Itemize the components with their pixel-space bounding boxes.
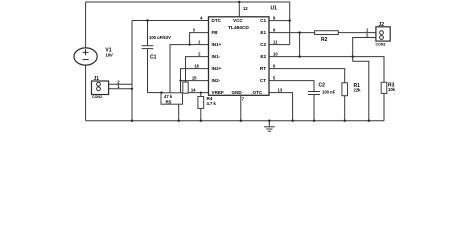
svg-text:OTC: OTC xyxy=(253,90,263,95)
svg-text:IN2-: IN2- xyxy=(212,78,221,83)
svg-text:IN1+: IN1+ xyxy=(212,42,222,47)
svg-text:E1: E1 xyxy=(260,30,266,35)
svg-text:13: 13 xyxy=(278,87,283,92)
svg-text:J2: J2 xyxy=(379,22,385,28)
svg-text:C1: C1 xyxy=(150,55,157,61)
svg-text:16V: 16V xyxy=(105,52,113,57)
svg-text:10k: 10k xyxy=(388,87,396,92)
svg-text:CT: CT xyxy=(260,78,266,83)
svg-text:E2: E2 xyxy=(260,54,266,59)
svg-text:100 nF: 100 nF xyxy=(322,90,336,95)
svg-text:IN1-: IN1- xyxy=(212,54,221,59)
svg-text:CON2: CON2 xyxy=(92,95,102,99)
svg-text:J1: J1 xyxy=(94,76,100,82)
svg-text:DTC: DTC xyxy=(212,18,222,23)
svg-text:15: 15 xyxy=(192,75,197,80)
svg-text:RT: RT xyxy=(260,66,266,71)
svg-text:GND: GND xyxy=(232,90,243,95)
svg-text:16: 16 xyxy=(194,63,199,68)
svg-text:100 uF/63V: 100 uF/63V xyxy=(149,35,171,40)
svg-text:C1: C1 xyxy=(260,18,266,23)
svg-text:10: 10 xyxy=(273,51,278,56)
svg-text:11: 11 xyxy=(273,39,278,44)
svg-text:IN2+: IN2+ xyxy=(212,66,222,71)
svg-text:47 k: 47 k xyxy=(164,94,173,99)
svg-text:VCC: VCC xyxy=(233,18,243,23)
svg-text:4.7 k: 4.7 k xyxy=(207,101,217,106)
svg-text:R2: R2 xyxy=(321,37,328,43)
svg-text:C2: C2 xyxy=(319,83,326,89)
svg-text:U1: U1 xyxy=(271,6,278,12)
svg-text:R5: R5 xyxy=(166,100,172,105)
svg-text:VREF: VREF xyxy=(212,90,224,95)
svg-text:14: 14 xyxy=(191,87,196,92)
svg-text:22k: 22k xyxy=(354,88,362,93)
svg-text:TL494CD: TL494CD xyxy=(228,25,249,31)
svg-text:12: 12 xyxy=(243,6,248,11)
svg-text:C2: C2 xyxy=(260,42,266,47)
svg-text:FB: FB xyxy=(212,30,219,35)
svg-text:CON2: CON2 xyxy=(376,43,386,47)
